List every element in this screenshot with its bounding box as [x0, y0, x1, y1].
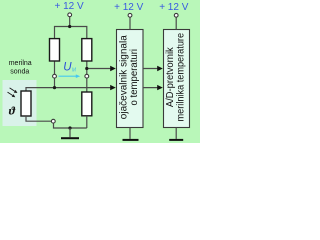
resistor R3	[82, 92, 92, 116]
influence arrow 2	[8, 92, 13, 95]
wire: +12V stub block1	[129, 17, 131, 29]
resistor R1	[50, 39, 60, 61]
arrowhead into block2 upper	[157, 66, 163, 71]
ground stem block1	[129, 128, 131, 139]
wire: +12V stub left	[69, 17, 71, 27]
resistor R2	[82, 39, 92, 61]
arrowhead into block1 upper	[110, 66, 116, 71]
terminal node A	[53, 74, 57, 78]
wire: sensor top / lower tap to block1	[26, 88, 113, 91]
ground bar bridge	[61, 137, 79, 139]
wire: R3 bottom to bottom rail	[86, 116, 88, 128]
ground stem bridge	[69, 128, 71, 137]
wire: sensor bottom to terminal C	[26, 116, 51, 121]
node: junction A-line/sensor	[53, 86, 56, 89]
svg-text:A/D-pretvornik: A/D-pretvornik	[165, 47, 176, 107]
terminal node B	[85, 74, 89, 78]
terminal +12V block1	[128, 13, 132, 17]
svg-text:+ 12 V: + 12 V	[54, 1, 84, 12]
svg-text:merilnika temperature: merilnika temperature	[176, 32, 187, 121]
block U1 amplifier	[117, 30, 144, 128]
node: junction top rail	[68, 25, 71, 28]
ground bar block2	[169, 139, 183, 141]
arrowhead into block1 lower	[110, 85, 116, 90]
voltage arrow U_M	[59, 75, 78, 77]
node: ground junction	[68, 126, 71, 129]
terminal +12V block2	[174, 13, 178, 17]
wire: +12V stub block2	[175, 17, 177, 29]
wire: terminal C down to bottom rail	[54, 123, 87, 128]
ground stem block2	[175, 128, 177, 139]
terminal C	[51, 119, 55, 123]
sensor highlight box	[3, 80, 37, 126]
wire: node A down to sensor junction	[54, 76, 56, 87]
wire: bridge output upper to block1	[87, 68, 113, 70]
arrowhead into block2 lower	[157, 85, 163, 90]
wire: R2 bottom to node B	[86, 61, 88, 76]
svg-text:merilna: merilna	[9, 60, 32, 67]
svg-text:+ 12 V: + 12 V	[114, 2, 144, 13]
sensor resistor	[21, 91, 31, 116]
block U2 A/D converter	[164, 30, 190, 128]
svg-text:ϑ: ϑ	[9, 103, 16, 117]
wire: block1 to block2 lower	[143, 87, 160, 89]
svg-text:ojačevalnik signala: ojačevalnik signala	[118, 35, 129, 120]
node: junction R2/block1 line	[85, 67, 88, 70]
svg-text:o temperaturi: o temperaturi	[129, 49, 140, 106]
svg-text:+ 12 V: + 12 V	[159, 2, 189, 13]
wire: block1 to block2 upper	[143, 68, 160, 70]
svg-text:sonda: sonda	[10, 69, 29, 76]
terminal +12V left	[68, 13, 72, 17]
wire: node B down to R3 top	[86, 76, 88, 92]
wire: R1 bottom to node A	[54, 61, 56, 76]
influence arrow 1	[10, 88, 15, 91]
ground bar block1	[123, 139, 139, 141]
wire: top rail	[55, 27, 87, 39]
